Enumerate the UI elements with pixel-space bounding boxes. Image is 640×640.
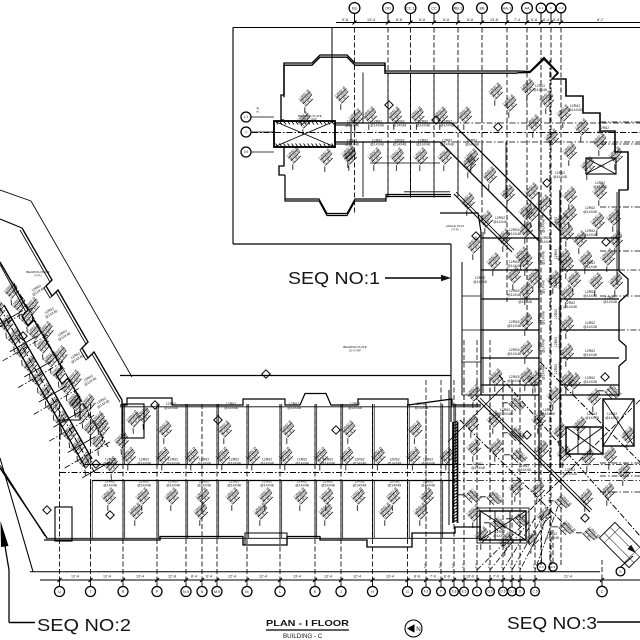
svg-text:13'-4: 13'-4 — [103, 575, 111, 579]
svg-text:8'-7: 8'-7 — [597, 18, 603, 22]
svg-text:EE: EE — [352, 6, 358, 10]
svg-text:13'-4: 13'-4 — [386, 575, 394, 579]
svg-text:SEQ NO:1: SEQ NO:1 — [288, 268, 380, 288]
svg-text:6'-8: 6'-8 — [531, 18, 537, 22]
svg-text:13'-4: 13'-4 — [293, 575, 301, 579]
svg-text:8'-8: 8'-8 — [414, 575, 420, 579]
svg-text:N: N — [201, 590, 204, 594]
svg-text:13'-4: 13'-4 — [367, 18, 375, 22]
svg-text:BB: BB — [479, 6, 485, 10]
svg-text:BUILDING - C: BUILDING - C — [283, 633, 323, 640]
svg-text:21'-4: 21'-4 — [564, 575, 572, 579]
svg-text:6'-4: 6'-4 — [206, 575, 212, 579]
svg-text:8'-8: 8'-8 — [467, 18, 473, 22]
svg-text:0.9: 0.9 — [244, 150, 249, 154]
svg-text:E.8: E.8 — [452, 590, 457, 594]
svg-text:C.1: C.1 — [539, 6, 544, 10]
svg-text:B: B — [619, 570, 621, 574]
svg-text:F: F — [440, 590, 442, 594]
svg-text:H: H — [371, 590, 374, 594]
svg-text:(TYP.): (TYP.) — [34, 274, 41, 278]
svg-text:N.9: N.9 — [183, 590, 189, 594]
svg-text:CC.1: CC.1 — [406, 6, 415, 10]
svg-text:8'-4: 8'-4 — [191, 575, 197, 579]
svg-text:E.5: E.5 — [462, 590, 467, 594]
svg-text:J: J — [340, 590, 342, 594]
svg-text:SEQ NO:2: SEQ NO:2 — [37, 615, 131, 635]
svg-text:U: U — [58, 590, 61, 594]
svg-text:G: G — [406, 590, 409, 594]
svg-text:CC: CC — [431, 6, 437, 10]
svg-text:M: M — [245, 590, 248, 594]
svg-text:F.2: F.2 — [424, 590, 428, 594]
svg-text:D.5: D.5 — [501, 590, 506, 594]
svg-text:8'-8: 8'-8 — [443, 18, 449, 22]
svg-text:L: L — [279, 590, 281, 594]
svg-text:12'-4: 12'-4 — [259, 575, 267, 579]
svg-text:D.6: D.6 — [539, 565, 544, 569]
svg-text:7'-0: 7'-0 — [493, 575, 499, 579]
svg-text:PLAN - I FLOOR: PLAN - I FLOOR — [266, 618, 349, 628]
svg-text:DD: DD — [385, 6, 391, 10]
svg-text:C.9: C.9 — [551, 565, 556, 569]
svg-text:13'-4: 13'-4 — [324, 575, 332, 579]
svg-text:K: K — [314, 590, 317, 594]
svg-text:12'-8: 12'-8 — [168, 575, 176, 579]
svg-text:13'-8: 13'-8 — [490, 18, 498, 22]
svg-text:5'-4: 5'-4 — [553, 18, 559, 22]
svg-text:6'-4: 6'-4 — [543, 18, 549, 22]
svg-text:12'-4: 12'-4 — [353, 575, 361, 579]
svg-text:C: C — [601, 589, 604, 594]
svg-text:BEARING PLATE: BEARING PLATE — [343, 345, 367, 349]
svg-text:M.9: M.9 — [214, 590, 220, 594]
svg-text:13'-4: 13'-4 — [136, 575, 144, 579]
svg-text:32'-4: 32'-4 — [598, 164, 605, 168]
svg-text:D.2: D.2 — [510, 590, 515, 594]
svg-text:R: R — [122, 590, 125, 594]
svg-text:6'-8: 6'-8 — [444, 575, 450, 579]
svg-text:9'-8: 9'-8 — [342, 18, 348, 22]
svg-text:P: P — [156, 590, 159, 594]
svg-text:8'-8: 8'-8 — [419, 18, 425, 22]
svg-text:1.1: 1.1 — [244, 115, 249, 119]
svg-text:12'-4: 12'-4 — [228, 575, 236, 579]
svg-text:(TYP): (TYP) — [451, 228, 458, 232]
svg-text:D.8: D.8 — [488, 590, 493, 594]
svg-text:AA: AA — [524, 6, 530, 10]
svg-text:AA.1: AA.1 — [503, 6, 511, 10]
svg-text:TYP - UON: TYP - UON — [303, 117, 316, 121]
svg-text:8'-8: 8'-8 — [396, 18, 402, 22]
svg-text:C.2: C.2 — [559, 6, 564, 10]
svg-text:7'-4: 7'-4 — [514, 18, 520, 22]
svg-text:1: 1 — [245, 130, 247, 134]
svg-text:N: N — [416, 626, 420, 633]
svg-text:E: E — [476, 590, 478, 594]
svg-text:ANGLE PLAT: ANGLE PLAT — [446, 224, 464, 228]
svg-text:BEARING PLATE: BEARING PLATE — [26, 270, 50, 274]
svg-text:9'-8: 9'-8 — [256, 107, 260, 112]
svg-text:13'-4: 13'-4 — [71, 575, 79, 579]
svg-text:BB.1: BB.1 — [454, 6, 462, 10]
svg-text:C.5: C.5 — [533, 590, 538, 594]
svg-text:7'-0: 7'-0 — [430, 575, 436, 579]
svg-text:32'-0" AFF: 32'-0" AFF — [349, 349, 361, 353]
svg-text:SEQ NO:3: SEQ NO:3 — [507, 613, 597, 633]
svg-text:10'-0: 10'-0 — [466, 575, 474, 579]
